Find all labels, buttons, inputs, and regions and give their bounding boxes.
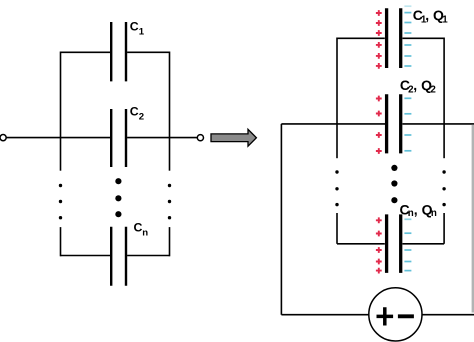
wire main horizontal left segment (left circuit)	[6, 137, 111, 139]
minus charges on C2 right plate	[404, 98, 411, 151]
wire bottom branch (left circuit)	[61, 255, 170, 257]
svg-text:, Q: , Q	[414, 201, 433, 217]
wire top branch (left circuit)	[61, 51, 170, 53]
wire right rail lower segment (left circuit)	[169, 227, 171, 256]
wire main horizontal right segment (left circuit)	[127, 137, 197, 139]
terminal node left	[0, 135, 6, 141]
ellipsis dots inner left rail (right circuit)	[335, 170, 338, 173]
ellipsis dots right rail (left circuit)	[168, 184, 171, 187]
wire inner right rail upper segment (right circuit)	[443, 38, 445, 159]
svg-text:n: n	[431, 208, 437, 219]
wire bottom right segment from battery (right circuit)	[422, 314, 474, 316]
capacitor Cn plates (charged, right circuit)	[387, 214, 401, 273]
arrow (transformation)	[211, 129, 256, 146]
capacitor C2 plates	[111, 109, 126, 167]
capacitor C1 plates (charged, right circuit)	[387, 8, 401, 68]
ellipsis dots middle (right circuit)	[391, 165, 397, 171]
wire right rail upper segment (left circuit)	[169, 52, 171, 171]
svg-text:C: C	[130, 20, 139, 34]
capacitor C2 plates (charged, right circuit)	[387, 94, 401, 153]
terminal node right	[197, 135, 203, 141]
battery V source circle	[369, 288, 422, 341]
svg-text:, Q: , Q	[425, 7, 444, 23]
capacitor C1 plates	[111, 22, 126, 81]
wire outer left rail (right circuit)	[280, 124, 282, 315]
wire bottom left segment to battery (right circuit)	[281, 314, 369, 316]
svg-text:2: 2	[139, 111, 144, 122]
svg-text:1: 1	[139, 26, 145, 37]
battery minus symbol	[398, 314, 414, 318]
wire inner left rail lower segment (right circuit)	[336, 213, 338, 244]
ellipsis dots inner right rail (right circuit)	[442, 170, 445, 173]
svg-text:, Q: , Q	[413, 77, 432, 93]
wire inner left rail upper segment (right circuit)	[336, 38, 338, 159]
minus charges on Cn right plate	[404, 219, 411, 270]
wire left rail lower segment (left circuit)	[60, 227, 62, 256]
svg-text:n: n	[142, 228, 148, 239]
plus charges on C1 left plate	[376, 10, 382, 69]
battery plus symbol	[377, 307, 394, 325]
ellipsis dots left rail (left circuit)	[59, 184, 62, 187]
svg-text:C: C	[134, 220, 143, 234]
minus charges on C1 right plate	[404, 6, 411, 66]
wire outer right rail cropped gray (right circuit)	[472, 125, 474, 313]
plus charges on Cn left plate	[376, 217, 382, 273]
wire main horizontal (right circuit)	[281, 123, 474, 125]
svg-text:C: C	[130, 105, 139, 119]
plus charges on C2 left plate	[376, 96, 382, 154]
wire left rail upper segment (left circuit)	[60, 52, 62, 171]
ellipsis dots middle (left circuit)	[115, 178, 121, 184]
capacitor Cn plates	[111, 227, 126, 286]
wire C1 branch (right circuit)	[337, 37, 444, 39]
svg-text:1: 1	[442, 15, 448, 26]
wire Cn branch (right circuit)	[337, 243, 444, 245]
svg-text:n: n	[408, 208, 414, 219]
wire inner right rail lower segment (right circuit)	[443, 213, 445, 244]
svg-text:2: 2	[430, 85, 436, 96]
